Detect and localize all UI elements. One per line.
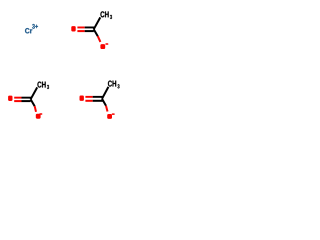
C=O upper line O-half [14, 97, 21, 99]
minus charge [39, 113, 42, 115]
CH3 subscript 3 [47, 85, 49, 89]
cation Cr3+ label [25, 28, 32, 33]
CH3 subscript 3 [110, 15, 112, 19]
bond C-O(-) black half [102, 99, 106, 106]
bond C-CH3 [102, 87, 108, 99]
CH3 subscript 3 [117, 84, 119, 88]
C=O upper line C-half [22, 97, 32, 99]
C=O lower line O-half [14, 100, 21, 102]
cation charge superscript 3+ [32, 24, 38, 29]
CH3 label [100, 11, 108, 17]
C=O lower line C-half [93, 100, 103, 102]
carbonyl O label [8, 96, 12, 101]
bond C-O(-) black half [31, 99, 35, 106]
bond C-O(-) red half [106, 106, 108, 112]
CH3 label [37, 82, 45, 88]
O(-) label [100, 44, 105, 49]
CH3 label [108, 81, 116, 87]
bond C-O(-) black half [94, 29, 98, 36]
carbonyl O label [80, 96, 84, 101]
bond C-O(-) red half [98, 36, 101, 42]
O(-) label [36, 114, 41, 119]
bond C-O(-) red half [35, 106, 36, 112]
minus charge [105, 43, 108, 45]
carbonyl O label [71, 26, 75, 31]
C=O lower line C-half [22, 100, 31, 102]
C=O lower line C-half [85, 30, 94, 32]
C=O upper line O-half [85, 96, 92, 98]
bond C-CH3 [94, 17, 101, 29]
bond C-CH3 [31, 87, 38, 99]
O(-) label [107, 114, 112, 119]
C=O upper line C-half [93, 96, 103, 98]
C=O upper line O-half [77, 27, 84, 29]
C=O lower line O-half [85, 100, 92, 102]
C=O lower line O-half [77, 30, 84, 32]
C=O upper line C-half [85, 27, 95, 29]
minus charge [112, 113, 115, 115]
